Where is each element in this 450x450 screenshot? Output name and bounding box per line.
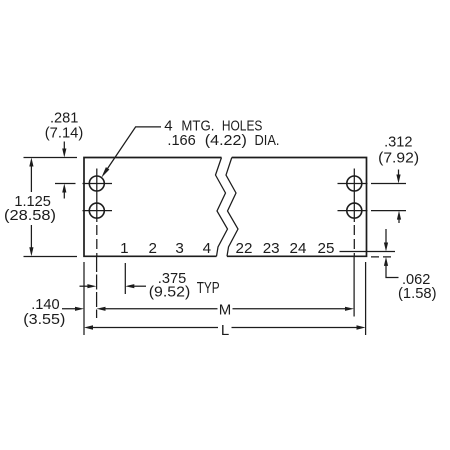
arrowhead 1.125 down [29, 247, 33, 256]
arrowhead .312 up [397, 211, 401, 220]
arrowhead L left (points left) [84, 325, 93, 329]
arrowhead L right (points right) [357, 325, 366, 329]
left edge extension below [83, 262, 85, 335]
arrowhead .140 (points right) [75, 307, 84, 311]
arrowhead .375 left(points right) [87, 284, 96, 288]
arrowhead .062 up [384, 257, 388, 266]
dim .062 arrow up with leader [386, 262, 399, 278]
mounting hole left bottom [89, 203, 104, 218]
svg-text:(9.52): (9.52) [149, 285, 191, 301]
svg-text:24: 24 [290, 240, 307, 257]
break line right zigzag [226, 158, 238, 257]
svg-text:4: 4 [164, 118, 172, 135]
dim 1.125 line lower [30, 225, 32, 252]
bottom edge extension right (dashed) [371, 256, 395, 258]
left holes horizontal centerlines [83, 184, 113, 211]
svg-text:(7.14): (7.14) [45, 126, 84, 142]
mounting hole left top [89, 176, 104, 191]
dim .375 right arrow line [130, 285, 146, 287]
mounting hole right top [347, 176, 362, 191]
leader line 4 MTG HOLES [105, 127, 162, 173]
top edge extension line left [24, 157, 78, 159]
right centerline extension below body [353, 257, 355, 317]
arrowhead leader MTG holes [101, 167, 109, 178]
feature line near terminal 25 [340, 251, 396, 253]
right edge extension below body [365, 262, 367, 335]
svg-text:(3.55): (3.55) [23, 312, 65, 328]
svg-text:22: 22 [236, 240, 253, 257]
svg-text:TYP: TYP [197, 280, 220, 297]
arrowhead .312 down [396, 175, 400, 184]
svg-text:MTG.: MTG. [181, 118, 214, 135]
dim .281 arrow down [63, 142, 65, 154]
arrowhead .281 down [62, 149, 66, 158]
hole center extension line left [55, 183, 76, 185]
right holes horizontal centerlines [338, 184, 368, 211]
svg-text:25: 25 [318, 240, 335, 257]
right hole2 extension line [371, 210, 406, 212]
svg-text:2: 2 [148, 240, 156, 257]
arrowhead M right (points right) [345, 307, 354, 311]
arrowhead .062 down [384, 243, 388, 252]
svg-text:L: L [221, 322, 229, 339]
svg-text:DIA.: DIA. [255, 132, 280, 149]
right holes vertical centerline [353, 169, 355, 223]
svg-text:.281: .281 [50, 111, 78, 127]
dim M line [101, 308, 349, 310]
body outline left segment [84, 158, 222, 257]
dim .312 arrow up [398, 215, 400, 223]
svg-text:3: 3 [175, 240, 183, 257]
svg-text:M: M [219, 302, 232, 319]
dim 1.125 line upper [30, 162, 32, 192]
body outline right segment [227, 158, 367, 257]
dim .281 arrow up [63, 188, 65, 199]
left centerline extension below body [96, 257, 98, 318]
right hole1 extension line [371, 183, 406, 185]
dim .312 arrow down [398, 170, 400, 180]
break line left zigzag [216, 158, 228, 257]
terminal 1 extension below [124, 263, 126, 294]
arrowhead .375 right(points left) [125, 284, 134, 288]
dim .062 arrow down [385, 229, 387, 247]
dim .375 left arrow line [80, 285, 92, 287]
mounting hole right bottom [347, 203, 362, 218]
svg-text:.312: .312 [384, 135, 412, 151]
dim L line [89, 327, 361, 329]
arrowhead M left (points left) [97, 307, 106, 311]
dim .140 leader [62, 308, 79, 310]
arrowhead 1.125 up [29, 158, 33, 167]
svg-text:(1.58): (1.58) [398, 286, 437, 302]
svg-text:(4.22): (4.22) [205, 133, 247, 149]
svg-text:4: 4 [203, 240, 211, 257]
bottom edge extension line left [24, 256, 78, 258]
left holes vertical centerline [96, 169, 98, 223]
svg-text:.166: .166 [167, 133, 195, 149]
svg-text:1: 1 [120, 240, 128, 257]
svg-text:(28.58): (28.58) [4, 208, 56, 224]
svg-text:.140: .140 [31, 297, 59, 313]
arrowheads [29, 149, 401, 330]
svg-text:23: 23 [263, 240, 280, 257]
arrowhead .281 up [62, 184, 66, 193]
svg-text:(7.92): (7.92) [378, 151, 419, 167]
